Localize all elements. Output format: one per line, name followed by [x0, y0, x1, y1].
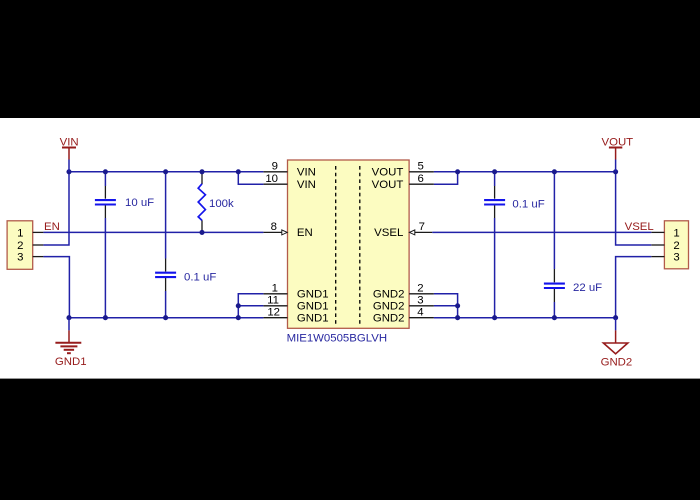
svg-text:4: 4: [417, 307, 423, 319]
svg-text:0.1 uF: 0.1 uF: [512, 198, 544, 210]
svg-text:MIE1W0505BGLVH: MIE1W0505BGLVH: [287, 333, 387, 345]
svg-text:VIN: VIN: [60, 136, 79, 148]
wire GND1 bottom rail: [69, 317, 263, 319]
isolation barrier dashed line 1: [335, 166, 337, 325]
wire R1 top lead: [201, 172, 203, 184]
svg-text:VOUT: VOUT: [372, 179, 404, 191]
svg-text:GND1: GND1: [297, 289, 329, 301]
capacitor C4 22 uF: [544, 282, 602, 294]
svg-text:VIN: VIN: [297, 167, 316, 179]
svg-text:EN: EN: [297, 227, 313, 239]
svg-text:2: 2: [673, 240, 679, 252]
wire C2 bottom lead: [165, 278, 167, 318]
supply symbol VIN: [60, 136, 79, 171]
IC pin stub 9: [263, 161, 287, 173]
svg-text:GND1: GND1: [297, 313, 329, 325]
wire C3 top lead: [494, 172, 496, 199]
connector J1 pin 2 stub: [33, 244, 44, 246]
IC pin stub 8 (EN) with input arrow: [263, 221, 287, 235]
wire C4 top lead: [553, 172, 555, 282]
IC pin stub 1: [263, 283, 287, 295]
top letterbox bar: [0, 0, 700, 118]
connector J2 pin 3 stub: [651, 256, 664, 258]
IC pin stub 7 (VSEL) with input arrow: [409, 221, 432, 235]
capacitor C1 10 uF: [95, 197, 154, 209]
wire C1 bottom lead: [104, 205, 106, 318]
IC pin stub 2: [409, 283, 434, 295]
svg-text:VIN: VIN: [297, 179, 316, 191]
svg-text:3: 3: [417, 295, 423, 307]
junction dots GND2 rail: [455, 303, 618, 320]
wire J2 pin 3 down to GND2 rail: [616, 257, 652, 318]
svg-text:GND2: GND2: [601, 357, 633, 369]
svg-text:EN: EN: [44, 221, 60, 233]
supply symbol VOUT: [602, 136, 634, 171]
svg-text:1: 1: [17, 227, 23, 239]
connector J2 pin 2 stub: [651, 244, 664, 246]
wire VOUT down to J2 pin 2: [616, 172, 652, 245]
IC pin stub 3: [409, 295, 434, 307]
junction dot EN / R1: [199, 230, 204, 235]
svg-text:12: 12: [267, 307, 280, 319]
svg-text:2: 2: [417, 283, 423, 295]
svg-text:0.1 uF: 0.1 uF: [184, 271, 216, 283]
svg-text:VOUT: VOUT: [602, 136, 634, 148]
svg-text:10 uF: 10 uF: [125, 197, 154, 209]
wire GND1 bus verticals to pins 1,11: [238, 294, 263, 318]
wire C2 top lead: [165, 172, 167, 272]
svg-text:22 uF: 22 uF: [573, 282, 602, 294]
wire GND2 bus verticals pins 2,3: [434, 294, 458, 318]
wire VSEL line IC pin 7 to J2 pin1: [432, 231, 651, 233]
connector J1 (left 1x3 header) body: [7, 221, 33, 269]
connector J2 pin 1 stub: [651, 231, 664, 233]
wire VOUT top rail: [434, 171, 616, 173]
svg-text:6: 6: [418, 173, 424, 185]
IC pin stub 12: [263, 307, 287, 319]
svg-text:GND1: GND1: [55, 356, 87, 368]
svg-text:1: 1: [272, 283, 278, 295]
bottom letterbox bar: [0, 379, 700, 500]
wire C4 bottom lead: [553, 289, 555, 318]
wire C3 bottom lead: [494, 205, 496, 318]
svg-text:GND1: GND1: [297, 301, 329, 313]
svg-text:GND2: GND2: [373, 301, 405, 313]
wire R1 bottom lead: [201, 220, 203, 232]
svg-text:VSEL: VSEL: [374, 227, 403, 239]
wire EN line J1 pin1 to IC pin 8: [43, 231, 263, 233]
connector J1 pin 3 stub: [33, 256, 44, 258]
svg-text:GND2: GND2: [373, 289, 405, 301]
svg-text:7: 7: [419, 221, 425, 233]
IC pin stub 5: [409, 161, 434, 173]
connector J2 (right 1x3 header) body: [664, 221, 688, 269]
svg-text:VSEL: VSEL: [625, 221, 654, 233]
connector J1 pin 1 stub: [33, 231, 44, 233]
svg-text:2: 2: [17, 240, 23, 252]
IC U1 MIE1W0505BGLVH body: [288, 160, 410, 328]
wire C1 top lead: [104, 172, 106, 199]
svg-text:8: 8: [271, 221, 277, 233]
junction dots GND1 rail: [66, 303, 240, 320]
junction dots VOUT rail: [455, 169, 618, 174]
svg-text:3: 3: [673, 252, 679, 264]
resistor R1 100k: [198, 184, 234, 221]
svg-text:1: 1: [673, 227, 679, 239]
svg-text:GND2: GND2: [373, 313, 405, 325]
IC pin stub 10: [263, 173, 287, 185]
capacitor C2 0.1 uF: [155, 271, 216, 283]
IC pin stub 4: [409, 307, 434, 319]
ground symbol GND1: [55, 318, 87, 368]
IC pin stub 6: [409, 173, 434, 185]
svg-text:3: 3: [17, 252, 23, 264]
svg-text:9: 9: [272, 161, 278, 173]
svg-text:VOUT: VOUT: [372, 167, 404, 179]
svg-text:11: 11: [267, 295, 279, 307]
ground symbol GND2: [601, 318, 633, 369]
svg-text:5: 5: [418, 161, 424, 173]
wire VIN top rail: [69, 171, 263, 173]
svg-text:10: 10: [265, 173, 278, 185]
wire VIN branch down to pin 10: [238, 172, 263, 184]
junction dots VIN rail: [66, 169, 240, 174]
wire VIN down to J1 pin 2: [43, 172, 69, 245]
IC pin stub 11: [263, 295, 287, 307]
wire J1 pin 3 down to GND1 rail: [43, 257, 69, 318]
isolation barrier dashed line 2: [359, 166, 361, 325]
capacitor C3 0.1 uF: [484, 198, 545, 210]
wire pin 6 up to VOUT rail: [434, 172, 458, 184]
wire GND2 bottom rail: [434, 317, 616, 319]
svg-text:100k: 100k: [209, 198, 234, 210]
